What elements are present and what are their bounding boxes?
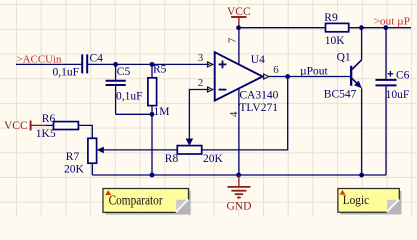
note Comparator bbox=[103, 189, 191, 215]
svg-text:VCC: VCC bbox=[4, 120, 28, 132]
svg-text:R9: R9 bbox=[324, 12, 338, 24]
junction at C5 tap bbox=[113, 62, 118, 67]
net label out uP bbox=[374, 16, 411, 28]
junction C6 top bbox=[383, 25, 388, 30]
net label ACCUin bbox=[17, 54, 62, 66]
wire pin2 to R8 wiper bbox=[189, 90, 209, 141]
junction rail/emitter bbox=[359, 173, 364, 178]
R8 wiper arrow bbox=[186, 139, 193, 145]
svg-text:TLV271: TLV271 bbox=[239, 102, 278, 114]
svg-text:6: 6 bbox=[273, 64, 279, 76]
svg-text:10uF: 10uF bbox=[386, 89, 410, 101]
svg-text:R7: R7 bbox=[66, 151, 80, 163]
wire VCC to pin 7 bbox=[238, 28, 240, 65]
pin number 4 bbox=[228, 111, 240, 117]
junction at R5/C5 bottom bbox=[150, 112, 155, 117]
svg-text:7: 7 bbox=[227, 37, 239, 43]
wire C4 to op-amp pin 3 bbox=[88, 63, 210, 65]
svg-text:U4: U4 bbox=[251, 54, 265, 66]
svg-text:CA3140: CA3140 bbox=[239, 90, 278, 102]
svg-text:0,1uF: 0,1uF bbox=[116, 91, 143, 103]
pin number 7 bbox=[227, 37, 239, 43]
junction VCC/pin7 bbox=[236, 25, 241, 30]
svg-text:3: 3 bbox=[198, 52, 204, 64]
resistor R5 bbox=[148, 64, 170, 118]
svg-text:Logic: Logic bbox=[343, 193, 370, 207]
svg-text:0,1uF: 0,1uF bbox=[53, 67, 80, 79]
svg-text:µPout: µPout bbox=[300, 66, 329, 78]
pin number 3 bbox=[198, 52, 204, 64]
wire VCC rail to out port bbox=[238, 27, 411, 29]
svg-text:4: 4 bbox=[228, 111, 240, 117]
potentiometer R8 bbox=[165, 146, 224, 165]
potentiometer R7 bbox=[64, 138, 104, 175]
svg-text:Q1: Q1 bbox=[337, 52, 351, 64]
wire C5 bottom to R5 bottom bbox=[116, 113, 152, 115]
svg-text:R8: R8 bbox=[165, 153, 179, 165]
wire VCC to R6 bbox=[46, 124, 54, 126]
svg-text:10K: 10K bbox=[325, 35, 346, 47]
pin number 6 bbox=[273, 64, 279, 76]
wire ACCUin to C4 bbox=[16, 63, 82, 65]
svg-text:>out µP: >out µP bbox=[374, 16, 411, 28]
capacitor C4 bbox=[53, 52, 104, 78]
pin arrow 2 bbox=[208, 87, 213, 92]
svg-text:20K: 20K bbox=[203, 153, 224, 165]
wire R6 to R7 top bbox=[78, 125, 92, 138]
svg-text:Comparator: Comparator bbox=[109, 192, 164, 207]
pin arrow 3 bbox=[208, 62, 213, 67]
junction R9/collector bbox=[359, 25, 364, 30]
svg-text:20K: 20K bbox=[64, 164, 85, 176]
wire R7 bottom to ground rail bbox=[91, 163, 93, 175]
svg-text:1M: 1M bbox=[154, 106, 170, 118]
svg-text:C6: C6 bbox=[396, 70, 410, 82]
svg-text:R5: R5 bbox=[153, 64, 167, 76]
junction at output/feedback node bbox=[285, 74, 290, 79]
svg-text:1K5: 1K5 bbox=[36, 128, 56, 140]
wire Q1 emitter to ground rail bbox=[361, 88, 363, 175]
resistor R9 bbox=[324, 12, 348, 47]
svg-text:C4: C4 bbox=[90, 52, 104, 64]
capacitor C6 bbox=[376, 28, 410, 175]
net label uPout bbox=[300, 66, 329, 78]
wire R5 bottom to ground rail bbox=[151, 114, 153, 175]
wire R7 wiper to R8 left bbox=[102, 149, 177, 151]
junction rail/R5 branch bbox=[150, 173, 155, 178]
ground rail wire bbox=[92, 174, 386, 176]
power port VCC top bbox=[227, 6, 251, 28]
wire R8 right to output node bbox=[202, 77, 288, 150]
resistor R6 bbox=[36, 113, 79, 140]
junction rail/GND bbox=[236, 173, 241, 178]
wire op-amp output to Q1 base bbox=[269, 76, 351, 78]
svg-text:C5: C5 bbox=[117, 66, 131, 78]
pin number 2 bbox=[198, 77, 204, 89]
capacitor C5 bbox=[106, 64, 143, 114]
junction at R5 top bbox=[150, 62, 155, 67]
svg-text:2: 2 bbox=[198, 77, 204, 89]
svg-text:BC547: BC547 bbox=[324, 89, 357, 101]
transistor Q1 bbox=[324, 52, 362, 101]
op-amp U4 bbox=[215, 52, 279, 114]
svg-text:GND: GND bbox=[227, 201, 252, 213]
svg-text:R6: R6 bbox=[42, 113, 56, 125]
note Logic bbox=[338, 189, 402, 215]
ground symbol GND bbox=[227, 175, 252, 213]
pin arrow 6 bbox=[264, 74, 269, 79]
wire Q1 collector to VCC rail bbox=[361, 28, 363, 60]
svg-text:VCC: VCC bbox=[227, 6, 251, 18]
power port VCC left bbox=[4, 120, 46, 132]
wire pin 4 to ground rail bbox=[238, 89, 240, 176]
